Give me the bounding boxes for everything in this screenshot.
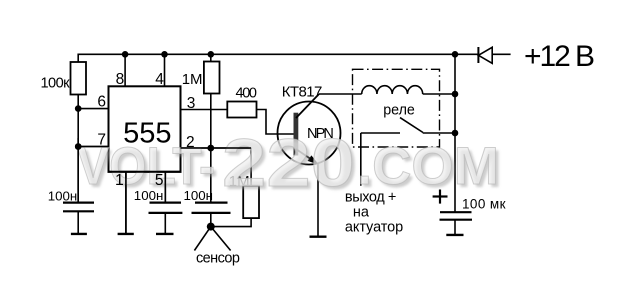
capacitor C2 100н [134,188,183,213]
wire C1 bottom [77,211,79,233]
wire R4 top [250,148,252,186]
node junction pin6 [75,105,82,112]
svg-text:сенсор: сенсор [196,250,240,266]
node junction pin7 overdraw [75,143,82,150]
svg-text:4: 4 [155,71,164,88]
wire pin2 node to C3 [210,148,212,203]
wire collector to relay coil [319,93,362,95]
wire pin 5 [164,172,166,203]
svg-text:1: 1 [115,172,124,189]
wire top supply rail [78,54,455,62]
wire coil right to supply [423,93,455,95]
op-amp U1 555 timer [109,86,181,172]
inductor relay coil [362,86,423,94]
svg-text:5: 5 [155,172,164,189]
wire C4 bottom [454,220,456,235]
resistor R3 400 [227,86,257,118]
node junction pin4 top [161,51,168,58]
wire C3 bottom to sensor node [210,213,212,227]
wire pin 7 overdraw [78,146,108,148]
svg-text:3: 3 [187,95,196,112]
wire pin 4 [164,54,166,86]
resistor R1 100к [41,62,87,95]
ground C1 terminal [71,233,87,235]
svg-text:КТ817: КТ817 [282,83,323,100]
capacitor C1 100н [48,189,94,212]
svg-text:актуатор: актуатор [345,220,403,236]
wire left bus overdraw [77,138,79,203]
wire pin 5 overdraw [164,172,166,203]
wire emitter down [317,165,319,237]
sensor antenna [194,227,240,267]
node junction switch supply [452,130,459,137]
node junction pin7 [75,143,82,150]
diode D1 [455,47,511,63]
wire pin 8 [124,54,126,86]
resistor R2 1М [182,62,220,94]
wire pin 2 [181,147,252,149]
label output actuator [345,189,403,235]
switch relay contact [361,118,455,133]
wire pin 1 [125,172,127,234]
node junction pin2 [208,145,215,152]
ground emitter terminal [310,235,327,237]
wire R3 to transistor base [257,110,294,135]
wire R2 top [210,54,212,61]
relay K1 dashed enclosure [353,69,440,147]
transistor Q1 КТ817 [278,83,341,165]
capacitor C4 100 мк polarized [433,190,506,220]
svg-text:+12 В: +12 В [524,40,595,73]
svg-text:реле: реле [383,102,415,118]
node junction R2 top [208,51,215,58]
capacitor C3 100н [184,188,231,213]
svg-text:.COM: .COM [357,137,499,196]
resistor R4 1М (sensor) [229,173,259,218]
node junction coil supply [452,91,459,98]
wire U1 box bottom edge overdraw [108,171,182,173]
wire C2 bottom [164,213,166,234]
wire pin 7 [78,146,108,148]
node junction pin2 overdraw [208,145,215,152]
wire pin 1 overdraw [125,172,127,234]
wire left vertical bus (R1 bottom to C1) [77,95,79,203]
node junction sensor [207,223,215,231]
svg-text:8: 8 [116,71,125,88]
wire pin 2 overdraw [181,147,252,149]
watermark volt-220.com [77,125,502,204]
wire R4 bottom to sensor node [211,218,251,227]
svg-text:100н: 100н [48,189,78,204]
svg-text:1М: 1М [182,71,203,88]
ground pin1 terminal [118,233,134,235]
node junction supply right [452,51,459,58]
node junction pin8 top [122,51,129,58]
wire pin 3 [181,109,228,111]
wire pin 6 [78,108,108,110]
svg-text:220: 220 [222,125,355,201]
ground C2 terminal [156,233,174,235]
ground C4 terminal [446,234,463,236]
wire right vertical bus [454,54,456,212]
svg-text:6: 6 [97,94,106,111]
wire R2 bottom to pin2 node [210,94,212,149]
wire switch to output [360,133,362,186]
svg-text:100к: 100к [41,75,71,91]
svg-text:400: 400 [236,86,258,102]
svg-text:на: на [353,205,370,221]
